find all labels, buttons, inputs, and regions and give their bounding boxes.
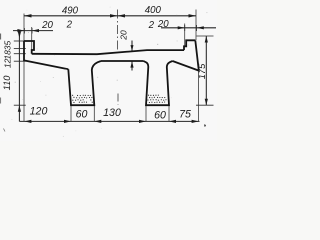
svg-text:2: 2 [66,19,73,30]
svg-text:110: 110 [2,75,12,91]
svg-text:120: 120 [30,106,48,118]
svg-text:490: 490 [62,6,79,17]
svg-text:20: 20 [41,20,53,31]
svg-text:60: 60 [154,110,166,122]
svg-text:175: 175 [197,63,207,79]
svg-text:20: 20 [119,30,129,41]
svg-text:130: 130 [103,107,121,119]
svg-text:12: 12 [3,58,13,68]
svg-text:18: 18 [3,50,13,60]
svg-text:35: 35 [3,41,13,51]
svg-text:20: 20 [157,19,169,30]
svg-text:75: 75 [179,109,191,121]
svg-text:60: 60 [76,109,88,121]
svg-text:400: 400 [145,5,162,16]
svg-text:2: 2 [148,20,155,31]
